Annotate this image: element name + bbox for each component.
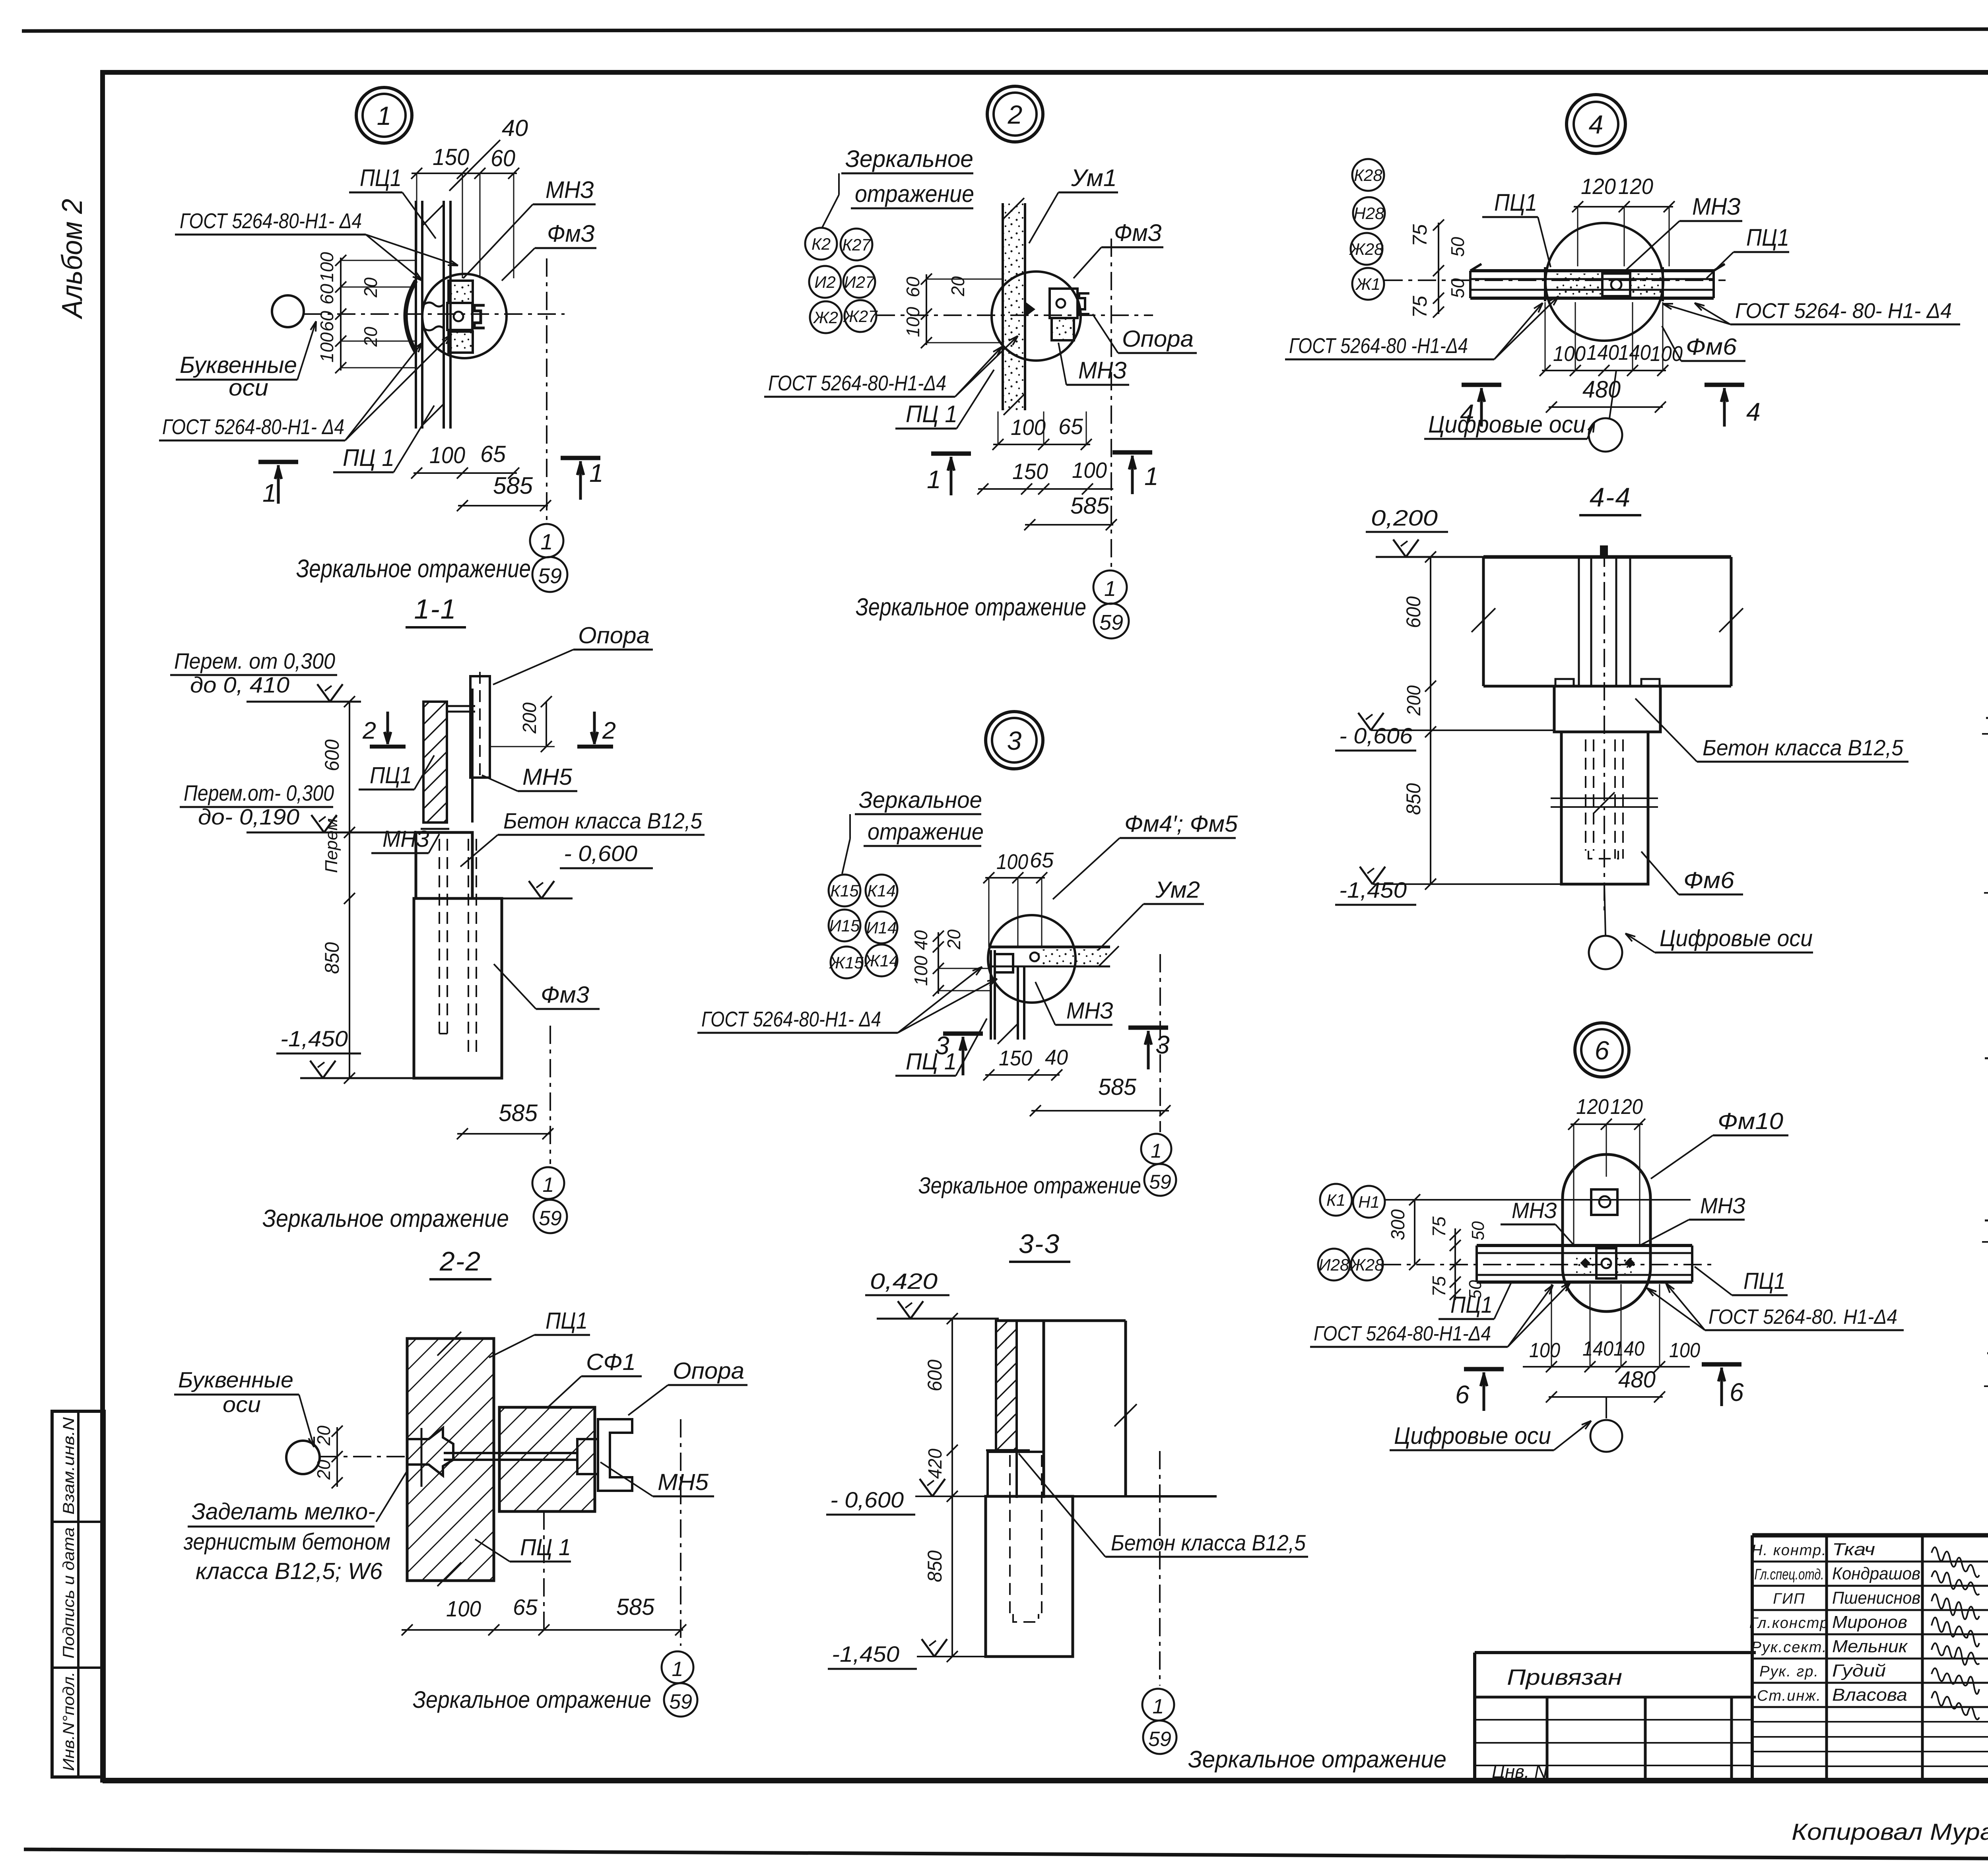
section 1-1 upper block <box>416 832 472 898</box>
svg-text:600: 600 <box>321 739 343 771</box>
svg-text:Цифровые оси: Цифровые оси <box>1660 925 1813 951</box>
svg-text:1: 1 <box>589 459 604 487</box>
svg-text:ГОСТ 5264-80-Н1-Δ4: ГОСТ 5264-80-Н1-Δ4 <box>1314 1322 1491 1345</box>
svg-text:6: 6 <box>1455 1380 1470 1409</box>
svg-text:Ст.инж.: Ст.инж. <box>1757 1688 1821 1704</box>
svg-text:59: 59 <box>1149 1171 1171 1193</box>
svg-text:140: 140 <box>1613 1337 1644 1360</box>
section 2-2 vertical axis <box>680 1419 681 1646</box>
section 2-2 SF1 block hatched <box>499 1407 595 1511</box>
svg-text:20: 20 <box>313 1426 334 1446</box>
section 2 mark right <box>593 712 596 744</box>
section 1-1 top level line <box>247 701 361 703</box>
svg-text:Опора: Опора <box>673 1358 744 1384</box>
svg-text:75: 75 <box>1429 1276 1449 1297</box>
svg-text:40: 40 <box>1045 1046 1068 1069</box>
svg-text:Н28: Н28 <box>1353 204 1384 223</box>
node 2 concrete pad <box>1052 318 1074 340</box>
svg-text:140: 140 <box>1618 341 1651 365</box>
svg-text:К2: К2 <box>812 235 831 253</box>
svg-text:100: 100 <box>996 850 1028 874</box>
svg-text:65: 65 <box>1058 414 1083 439</box>
section 1-1 column second leaf <box>446 702 448 823</box>
svg-text:Буквенные: Буквенные <box>178 1367 293 1392</box>
svg-text:Ум2: Ум2 <box>1155 877 1200 903</box>
section 3-3 anchors dashed <box>1009 1455 1011 1614</box>
svg-text:20: 20 <box>313 1460 334 1480</box>
svg-text:Фм4′; Фм5: Фм4′; Фм5 <box>1124 811 1238 837</box>
node 2 section marks <box>931 452 971 456</box>
svg-text:Альбом 2: Альбом 2 <box>56 199 88 320</box>
svg-text:МНЗ: МНЗ <box>1512 1198 1557 1223</box>
svg-text:Опора: Опора <box>578 623 650 648</box>
svg-text:Бетон класса В12,5: Бетон класса В12,5 <box>1703 735 1904 760</box>
svg-text:120: 120 <box>1581 174 1616 199</box>
section 2-2 wall hatched <box>407 1339 494 1581</box>
node 1 letter axis circle <box>272 295 304 327</box>
svg-text:И27: И27 <box>844 273 875 291</box>
svg-text:Зеркальное отражение: Зеркальное отражение <box>856 594 1086 621</box>
node 4 section marks <box>1462 383 1501 387</box>
svg-text:140: 140 <box>1582 1337 1613 1360</box>
svg-text:2: 2 <box>362 717 376 744</box>
section 1-1 anchor dashed <box>439 839 440 1034</box>
svg-text:59: 59 <box>1099 611 1123 634</box>
svg-text:40: 40 <box>911 930 931 950</box>
node 1 support C-bracket <box>474 305 485 328</box>
left stamp table <box>52 1411 104 1777</box>
section 4-4 axis circle <box>1604 884 1606 935</box>
section 2-2 axis line <box>320 1456 407 1457</box>
section 3-3 slab bottom <box>1044 1495 1217 1498</box>
svg-text:МНЗ: МНЗ <box>1078 357 1127 384</box>
svg-text:Мельник: Мельник <box>1832 1637 1908 1656</box>
svg-text:4-4: 4-4 <box>1590 482 1631 512</box>
svg-text:Заделать мелко-: Заделать мелко- <box>192 1499 375 1525</box>
svg-text:Зеркальное: Зеркальное <box>845 145 973 172</box>
svg-text:Опора: Опора <box>1122 326 1194 352</box>
svg-text:100: 100 <box>446 1596 481 1621</box>
svg-text:140: 140 <box>1586 341 1619 365</box>
svg-text:Фм6: Фм6 <box>1683 867 1735 893</box>
node 1 left dim chain <box>340 258 342 371</box>
sheet top edge line <box>22 29 1988 31</box>
svg-text:ГОСТ 5264-80. Н1-Δ4: ГОСТ 5264-80. Н1-Δ4 <box>1708 1306 1897 1329</box>
svg-text:МН5: МН5 <box>522 764 573 790</box>
node 6 dim 300 <box>1414 1200 1415 1265</box>
svg-text:3: 3 <box>1007 726 1022 755</box>
svg-text:200: 200 <box>519 702 540 734</box>
node 1 bubble <box>356 87 412 143</box>
section 2-2 anchor rod <box>444 1452 577 1454</box>
svg-text:Привязан: Привязан <box>1507 1664 1622 1690</box>
node 2 vertical axis <box>1110 239 1112 568</box>
node 4 left dim chain <box>1438 223 1439 314</box>
svg-text:2: 2 <box>602 717 616 744</box>
svg-text:480: 480 <box>1618 1367 1656 1393</box>
svg-text:Гудий: Гудий <box>1832 1661 1886 1680</box>
section 1-1 support bar <box>470 676 490 778</box>
svg-text:850: 850 <box>321 942 343 974</box>
svg-text:К1: К1 <box>1326 1191 1345 1209</box>
node 3 bolt <box>1030 953 1039 961</box>
node 2 axis circles <box>805 228 837 260</box>
svg-text:Перем.от- 0,300: Перем.от- 0,300 <box>184 780 334 805</box>
svg-text:Рук. гр.: Рук. гр. <box>1759 1663 1819 1680</box>
svg-text:585: 585 <box>1070 493 1110 519</box>
svg-text:20: 20 <box>360 277 381 298</box>
svg-text:ПЦ 1: ПЦ 1 <box>343 444 394 471</box>
svg-text:отражение: отражение <box>868 819 984 845</box>
node 6 bubble <box>1575 1023 1629 1077</box>
svg-text:0,200: 0,200 <box>1371 505 1438 530</box>
svg-text:850: 850 <box>1402 783 1425 815</box>
svg-text:Перем.: Перем. <box>322 813 341 873</box>
node 1 bolt circle <box>454 312 463 321</box>
svg-text:3-3: 3-3 <box>1019 1229 1060 1259</box>
svg-text:Н. контр.: Н. контр. <box>1751 1542 1827 1559</box>
node 2 axis line <box>877 314 1153 316</box>
svg-text:Рук.сект.: Рук.сект. <box>1751 1639 1827 1656</box>
svg-text:МНЗ: МНЗ <box>1700 1193 1745 1218</box>
node 6 center plate <box>1596 1248 1616 1278</box>
svg-text:Фм6: Фм6 <box>1686 334 1737 360</box>
svg-text:59: 59 <box>538 564 562 588</box>
personnel table columns <box>1825 1535 1828 1781</box>
svg-text:Зеркальное отражение: Зеркальное отражение <box>262 1205 509 1232</box>
section 1-1 top plate <box>447 705 475 707</box>
node 2 bubble <box>987 86 1043 142</box>
node 1 anchor middle block <box>447 303 472 330</box>
svg-text:-1,450: -1,450 <box>832 1641 899 1666</box>
svg-text:1: 1 <box>540 529 553 554</box>
section 3-3 pedestal <box>988 1452 1044 1496</box>
svg-text:600: 600 <box>1402 596 1425 628</box>
svg-text:100: 100 <box>1011 415 1046 440</box>
node 6 anchor square <box>1591 1189 1617 1215</box>
svg-text:Зеркальное отражение: Зеркальное отражение <box>296 554 531 583</box>
svg-text:850: 850 <box>924 1550 946 1582</box>
section 1-1 dim 600 850 chain <box>349 702 350 1078</box>
node 1 section mark right <box>561 456 600 460</box>
section 3-3 lower block <box>986 1496 1073 1657</box>
svg-text:75: 75 <box>1409 224 1431 246</box>
svg-text:120: 120 <box>1618 174 1653 199</box>
node 2 detail circle <box>992 272 1081 361</box>
node 3 corner plate <box>995 954 1013 972</box>
svg-text:100: 100 <box>316 332 337 363</box>
node 1 anchor plate concrete top <box>448 281 473 303</box>
svg-text:6: 6 <box>1595 1036 1609 1065</box>
node 3 wall below <box>990 950 992 1040</box>
section 4-4 center axis <box>1604 549 1605 910</box>
section 3-3 vertical axis <box>1159 1451 1161 1686</box>
svg-text:Ж28: Ж28 <box>1349 240 1384 258</box>
svg-text:3: 3 <box>935 1031 950 1060</box>
svg-text:100: 100 <box>1650 342 1683 366</box>
node 6 dims 75 50 <box>1454 1228 1456 1300</box>
node 6 stadium footing <box>1563 1154 1650 1311</box>
section 1-1 dim 200 <box>546 702 547 747</box>
svg-text:Ж27: Ж27 <box>843 307 878 326</box>
node 4 detail circle <box>1545 223 1663 341</box>
node 6 axis circles <box>1320 1184 1352 1216</box>
node 6 beam stipple <box>1574 1255 1596 1274</box>
svg-text:ПЦ1: ПЦ1 <box>546 1308 588 1334</box>
svg-text:150: 150 <box>433 144 469 170</box>
section 2-2 nut plate <box>577 1439 598 1474</box>
svg-text:1: 1 <box>1104 577 1116 601</box>
svg-text:Власова: Власова <box>1832 1685 1907 1705</box>
svg-text:Ж1: Ж1 <box>1355 275 1380 293</box>
svg-text:60: 60 <box>491 145 515 171</box>
svg-text:50: 50 <box>1447 278 1468 298</box>
node 6 digital axis circle <box>1606 1397 1607 1418</box>
svg-text:2: 2 <box>1008 100 1023 129</box>
svg-text:ПЦ1: ПЦ1 <box>1746 224 1789 251</box>
node 4 center plate <box>1602 274 1630 296</box>
svg-text:60: 60 <box>903 277 923 297</box>
svg-text:И15: И15 <box>829 916 860 935</box>
section 4-4 lower block <box>1561 732 1648 884</box>
svg-text:Инв.N°подл.: Инв.N°подл. <box>60 1672 78 1771</box>
section 1-1 vertical axis <box>549 1026 551 1164</box>
svg-text:К14: К14 <box>867 881 895 900</box>
svg-text:Пшениснов: Пшениснов <box>1832 1588 1920 1608</box>
section 4-4 pedestal <box>1554 686 1660 732</box>
sheet bottom edge line <box>24 1849 1988 1861</box>
node 2 anchor block <box>1050 289 1077 318</box>
svg-text:100: 100 <box>316 252 337 282</box>
section 3-3 dim chain <box>951 1319 953 1657</box>
section 3-3 column <box>1015 1321 1018 1498</box>
node 1 anchor plate concrete bottom <box>448 332 473 353</box>
svg-text:ПЦ 1: ПЦ 1 <box>520 1535 571 1560</box>
svg-text:отражение: отражение <box>855 180 974 207</box>
section 3-3 hatched panel <box>996 1321 1017 1450</box>
svg-text:МН5: МН5 <box>658 1469 709 1495</box>
node 2 left dim chain <box>926 274 927 345</box>
node 1 bent plate dark arc <box>406 281 416 352</box>
svg-text:Фм3: Фм3 <box>541 982 589 1008</box>
node 3 vertical axis <box>1159 954 1161 1132</box>
svg-text:Бетон класса В12,5: Бетон класса В12,5 <box>503 808 703 833</box>
node 3 bubble <box>986 712 1043 769</box>
svg-text:0,420: 0,420 <box>870 1269 938 1294</box>
svg-text:до 0, 410: до 0, 410 <box>190 672 289 697</box>
svg-text:65: 65 <box>513 1595 538 1620</box>
svg-text:ПЦ1: ПЦ1 <box>1743 1268 1786 1294</box>
svg-text:Копировал Муратова: Копировал Муратова <box>1792 1819 1988 1845</box>
svg-text:100: 100 <box>1529 1339 1560 1362</box>
svg-text:3: 3 <box>1155 1030 1171 1059</box>
svg-text:Взам.инв.N: Взам.инв.N <box>60 1417 78 1515</box>
svg-text:100: 100 <box>1072 458 1107 483</box>
svg-text:60: 60 <box>316 311 337 332</box>
svg-text:И28: И28 <box>1319 1255 1349 1274</box>
section 2-2 support C profile <box>598 1419 632 1491</box>
svg-text:зернистым бетоном: зернистым бетоном <box>183 1529 390 1555</box>
svg-text:- 0,606: - 0,606 <box>1339 723 1413 748</box>
svg-text:ГОСТ 5264-80-Н1- Δ4: ГОСТ 5264-80-Н1- Δ4 <box>180 209 362 233</box>
svg-text:50: 50 <box>1468 1221 1488 1240</box>
svg-text:1: 1 <box>927 465 942 494</box>
svg-text:20: 20 <box>360 327 381 347</box>
node 4 axis circles <box>1352 159 1384 191</box>
node 3 section marks <box>943 1032 983 1036</box>
svg-text:Гл.констр: Гл.констр <box>1749 1615 1829 1632</box>
node 6 axis lines <box>1385 1199 1691 1201</box>
section 4-4 break band <box>1551 797 1658 799</box>
section 1-1 column hatched panel <box>423 702 447 823</box>
svg-text:класса В12,5; W6: класса В12,5; W6 <box>196 1558 383 1584</box>
svg-text:585: 585 <box>1098 1074 1137 1100</box>
svg-text:100: 100 <box>1669 1339 1700 1362</box>
node 6 weld dots <box>1580 1258 1590 1268</box>
svg-text:Фм10: Фм10 <box>1718 1108 1783 1134</box>
privyazan box <box>1475 1651 1756 1654</box>
node 1 ref circle 59 <box>532 557 567 592</box>
node 1 section mark left <box>258 460 298 464</box>
svg-text:60: 60 <box>316 284 337 305</box>
svg-text:ФмЗ: ФмЗ <box>1114 219 1162 246</box>
node 1 detail circle <box>422 274 507 358</box>
svg-text:59: 59 <box>1148 1728 1171 1751</box>
svg-text:Буквенные: Буквенные <box>180 352 297 378</box>
svg-text:Цифровые оси: Цифровые оси <box>1428 411 1586 438</box>
section 1-1 ref circles <box>532 1167 564 1199</box>
svg-text:20: 20 <box>944 929 964 950</box>
section 4-4 anchors dashed <box>1585 739 1586 851</box>
svg-text:ФмЗ: ФмЗ <box>547 220 595 247</box>
node 4 beam plates <box>1544 267 1546 301</box>
svg-text:600: 600 <box>924 1360 946 1391</box>
node 3 detail circle <box>988 915 1076 1003</box>
node 1 column panel lines <box>415 201 417 429</box>
svg-text:100: 100 <box>429 442 465 468</box>
svg-text:ПЦ1: ПЦ1 <box>360 165 402 191</box>
svg-text:Н1: Н1 <box>1358 1193 1380 1211</box>
svg-text:40: 40 <box>502 115 528 141</box>
node 1 witness lines <box>416 173 417 254</box>
svg-text:1: 1 <box>1153 1695 1164 1718</box>
svg-text:- 0,600: - 0,600 <box>564 841 637 866</box>
svg-text:К15: К15 <box>830 881 859 900</box>
section 3-3 right slab edge <box>1044 1319 1126 1322</box>
svg-text:100: 100 <box>911 956 931 986</box>
svg-text:-1,450: -1,450 <box>280 1026 348 1051</box>
svg-text:Цифровые оси: Цифровые оси <box>1394 1422 1551 1449</box>
section 2-2 ref circles <box>662 1651 693 1683</box>
svg-text:Зеркальное отражение: Зеркальное отражение <box>413 1686 651 1713</box>
svg-text:Ум1: Ум1 <box>1071 165 1117 191</box>
section 3-3 ref circles <box>1142 1689 1174 1721</box>
svg-text:59: 59 <box>669 1690 692 1713</box>
svg-text:20: 20 <box>947 276 968 297</box>
svg-text:1: 1 <box>672 1658 683 1681</box>
svg-text:4: 4 <box>1746 398 1761 426</box>
node 1 vertical axis <box>546 258 547 525</box>
section 2-2 axis circle <box>286 1441 320 1474</box>
svg-text:ГОСТ 5264-80-Н1- Δ4: ГОСТ 5264-80-Н1- Δ4 <box>701 1007 881 1031</box>
svg-text:И2: И2 <box>814 273 835 291</box>
svg-text:Миронов: Миронов <box>1832 1612 1907 1632</box>
svg-text:-1,450: -1,450 <box>1339 877 1407 902</box>
section 2 mark left <box>386 712 389 744</box>
node 4 beam end hooks <box>1470 264 1481 271</box>
svg-text:Кондрашов: Кондрашов <box>1832 1564 1920 1583</box>
node 4 beam lines <box>1470 269 1714 272</box>
node 2 ref circle 1 <box>1093 570 1127 604</box>
svg-text:1: 1 <box>1144 462 1159 491</box>
node 6 beam lines <box>1477 1244 1692 1247</box>
svg-text:Зеркальное: Зеркальное <box>859 787 982 813</box>
svg-text:ПЦ 1: ПЦ 1 <box>906 401 957 427</box>
svg-text:6: 6 <box>1730 1378 1745 1406</box>
svg-text:И14: И14 <box>866 918 897 937</box>
svg-text:75: 75 <box>1409 296 1431 318</box>
svg-text:Ж15: Ж15 <box>829 953 864 972</box>
svg-text:Бетон класса В12,5: Бетон класса В12,5 <box>1111 1530 1306 1555</box>
svg-text:585: 585 <box>493 472 533 499</box>
svg-text:1: 1 <box>377 101 392 130</box>
svg-text:ГОСТ 5264-80 -Н1-Δ4: ГОСТ 5264-80 -Н1-Δ4 <box>1289 334 1468 358</box>
title block outer <box>1752 1533 1988 1538</box>
svg-text:420: 420 <box>925 1449 946 1479</box>
svg-text:1-1: 1-1 <box>414 594 456 625</box>
svg-text:Гл.спец.отд.: Гл.спец.отд. <box>1755 1566 1824 1583</box>
svg-text:150: 150 <box>999 1046 1032 1070</box>
svg-text:300: 300 <box>1388 1209 1409 1240</box>
svg-text:150: 150 <box>1012 459 1048 484</box>
svg-text:ГОСТ 5264-80-Н1-Δ4: ГОСТ 5264-80-Н1-Δ4 <box>768 371 946 395</box>
svg-text:Перем. от 0,300: Перем. от 0,300 <box>174 648 335 673</box>
svg-text:СФ1: СФ1 <box>586 1349 636 1375</box>
node 2 wall panel <box>1003 203 1025 410</box>
node 4 digital axis circle <box>1609 371 1616 418</box>
node 2 ref circle 59 <box>1094 603 1129 638</box>
svg-text:4: 4 <box>1589 110 1604 139</box>
svg-text:ГОСТ 5264- 80- Н1- Δ4: ГОСТ 5264- 80- Н1- Δ4 <box>1735 299 1952 323</box>
node 1 spring waves <box>424 303 444 307</box>
svg-text:2-2: 2-2 <box>439 1246 481 1276</box>
personnel table rows <box>1752 1561 1988 1563</box>
svg-text:Ж28: Ж28 <box>1349 1255 1384 1274</box>
frame bottom repeated <box>103 1779 1988 1783</box>
node 4 axis line N1 <box>1384 279 1726 281</box>
svg-text:МНЗ: МНЗ <box>546 177 594 203</box>
svg-text:Ж14: Ж14 <box>864 951 898 970</box>
svg-text:Ткач: Ткач <box>1832 1540 1875 1559</box>
section 4-4 dim chain <box>1430 557 1431 884</box>
node 3 beam to right <box>990 946 1110 949</box>
svg-text:65: 65 <box>480 441 506 467</box>
section 4-4 bolt top <box>1600 545 1608 557</box>
svg-text:585: 585 <box>616 1594 655 1620</box>
svg-text:585: 585 <box>499 1100 538 1126</box>
svg-text:ПЦ1: ПЦ1 <box>1494 189 1537 216</box>
svg-text:К28: К28 <box>1354 166 1382 184</box>
svg-text:Зеркальное отражение: Зеркальное отражение <box>918 1173 1141 1199</box>
svg-text:Подпись и дата: Подпись и дата <box>60 1527 78 1659</box>
svg-text:120: 120 <box>1576 1095 1609 1119</box>
node 2 weld dark mark <box>1026 302 1035 316</box>
svg-text:- 0,600: - 0,600 <box>830 1487 904 1512</box>
svg-text:ГИП: ГИП <box>1773 1591 1805 1607</box>
section 4-4 column lines <box>1578 557 1580 686</box>
section 2-2 anchor bolt <box>407 1428 453 1476</box>
node 1 letter axis line <box>304 313 565 315</box>
